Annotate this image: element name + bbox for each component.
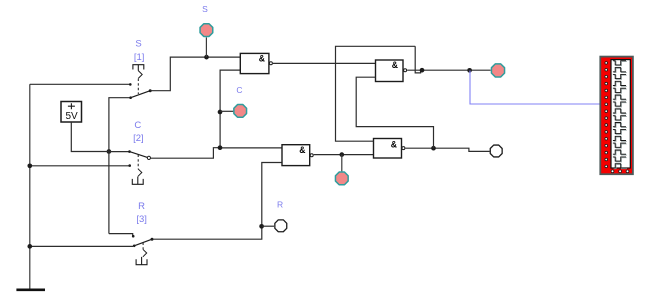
probe Q red indicator	[491, 64, 504, 77]
node C junction	[218, 145, 223, 150]
node Q blue tap	[467, 68, 472, 73]
wire node C to gate U2 input A	[220, 147, 282, 149]
wire switch R to node R	[154, 226, 262, 239]
node 5V rail to C	[107, 149, 112, 154]
wire node R to gate U2 input B	[262, 163, 282, 227]
wire Q feedback jog	[415, 46, 420, 73]
svg-text:R: R	[277, 200, 283, 210]
node R probe tap	[259, 224, 264, 229]
switch S [1]	[129, 65, 152, 99]
node ground rail to R	[27, 244, 32, 249]
svg-text:C: C	[236, 85, 242, 95]
svg-text:&: &	[392, 60, 399, 70]
waveform glyphs	[614, 62, 627, 169]
svg-text:5V: 5V	[65, 111, 78, 122]
logic analyzer XLA1	[600, 57, 633, 175]
wire blue to logic analyzer	[470, 71, 600, 105]
svg-text:&: &	[391, 139, 398, 149]
wire probe stem	[341, 155, 343, 172]
wire ground rail to switch R lower contact	[30, 245, 133, 247]
op-amp U1 nand gate	[240, 53, 272, 73]
svg-text:&: &	[299, 145, 306, 155]
node C probe tap	[218, 110, 223, 115]
svg-text:&: &	[259, 53, 266, 63]
wire switch S to gate U1 input A	[150, 57, 240, 91]
probe S red indicator	[200, 24, 213, 37]
svg-text:[3]: [3]	[136, 214, 147, 225]
node Q jog junction	[420, 68, 425, 73]
wire 5V rail to switch R upper contact	[109, 234, 133, 236]
switch R [3]	[132, 235, 154, 265]
op-amp U3 nand gate latch top	[376, 60, 407, 82]
wire Qbar feedback to gate U3 input B	[356, 77, 433, 148]
svg-text:S: S	[135, 38, 141, 49]
probe R white indicator	[275, 220, 287, 232]
wire C vertical to gate U1 input B	[220, 70, 240, 148]
wire probe R stem	[262, 225, 274, 227]
wire V1 to 5V rail	[71, 122, 109, 152]
node Qbar-drive probe tap	[339, 152, 344, 157]
op-amp U4 nand gate latch bottom	[374, 139, 405, 159]
wire gate U1 output to gate U3 input A	[273, 62, 376, 64]
wire gate U2 output to gate U4 input B	[314, 154, 374, 156]
op-amp U2 nand gate	[282, 145, 313, 166]
pin dots column	[605, 62, 608, 168]
wire Q feedback top to gate U4 input A	[336, 46, 416, 141]
svg-text:[2]: [2]	[133, 133, 144, 144]
wire gate U3 output to probe Q	[407, 69, 491, 71]
wire ground rail to switch C lower contact	[30, 165, 130, 167]
wire 5V rail vertical	[109, 98, 131, 234]
node S junction	[204, 55, 209, 60]
svg-text:C: C	[134, 120, 141, 131]
wire switch C to node C	[151, 148, 221, 159]
node ground rail to C	[27, 163, 32, 168]
wire ground rail to switch S upper contact	[30, 83, 130, 85]
wire probe C stem	[220, 110, 233, 112]
svg-text:S: S	[202, 4, 208, 14]
probe red indicator lower	[335, 172, 348, 185]
switch C [2]	[128, 150, 150, 184]
ground	[16, 84, 45, 289]
wire gate U4 output to probe Qbar	[405, 148, 489, 151]
node Qbar feedback tap	[431, 146, 436, 151]
wire probe S stem	[205, 37, 207, 57]
svg-text:R: R	[138, 201, 145, 212]
probe C red indicator	[234, 105, 247, 118]
power source V1 5V	[61, 102, 82, 123]
bottom dots	[611, 170, 629, 173]
svg-text:[1]: [1]	[134, 52, 145, 63]
probe Qbar white indicator	[490, 145, 502, 157]
wire 5V rail to switch C upper contact	[109, 151, 130, 153]
